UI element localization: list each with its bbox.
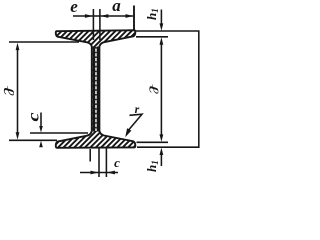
svg-text:ℓ: ℓ <box>146 84 160 94</box>
svg-text:c: c <box>24 112 42 121</box>
svg-text:c: c <box>114 155 120 170</box>
svg-text:a: a <box>112 0 121 15</box>
svg-text:ℓ: ℓ <box>0 86 16 96</box>
svg-text:r: r <box>135 102 140 116</box>
svg-text:e: e <box>70 0 78 16</box>
